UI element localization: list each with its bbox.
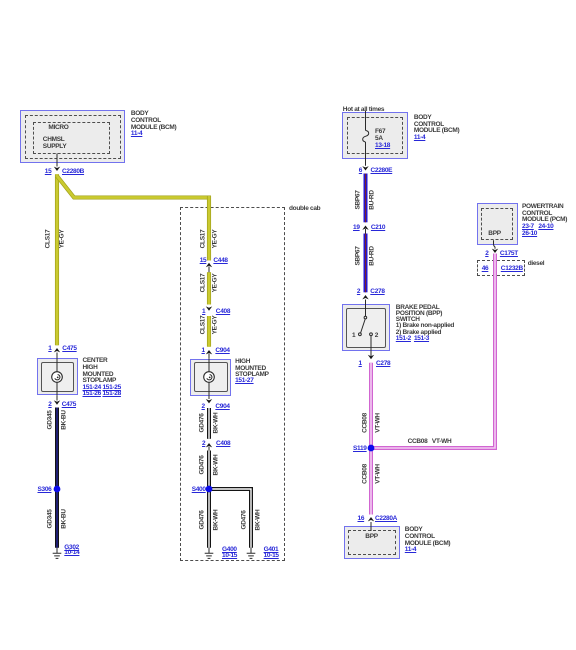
connector arrow C2280A [368,517,374,521]
wire label YE-GY mid seg3 [212,315,219,334]
fuse F67 element [363,130,369,142]
pin 6 C2280E [359,168,362,175]
wire stem C210 [365,229,367,234]
fuse box F67 (BCM, hot at all times) [342,112,408,159]
wire hot feed into fuse [365,111,367,131]
wire CLS17 YE-GY vertical middle seg3 [207,316,211,347]
ground G400 [205,548,214,559]
wire GD476 BK-WH seg1 [207,408,211,439]
wire C904 pin2 stem [208,396,210,399]
ground G302 [53,548,62,559]
connector arrow C278 pin1 [368,355,374,359]
wire label CCB08 lower [361,464,368,484]
PCM name label [522,204,567,238]
ground label G400 [222,547,237,559]
wire CLS17 YE-GY vertical middle seg1 [207,196,211,261]
wire CCB08 VT-WH switch to S119 [369,363,373,446]
wire label CCB08 upper [361,413,368,433]
connector arrow C210 [362,226,368,230]
wire BCM box to C2280B [56,154,58,167]
pin 19 C210 [353,225,360,232]
pin 46 C1232B [482,266,489,273]
PCM module box [477,203,518,244]
wire stem C448 [208,266,210,272]
lamp2 internal wire [208,359,210,396]
pin 15 C2280B [45,169,52,176]
connector arrow C475 pin1 [54,348,60,352]
wire GD476 BK-WH branch to ground G401 [209,489,251,548]
Hot at all times label [343,107,384,114]
wire C475 pin1 stem [56,353,58,359]
wire CCB08 VT-WH S119 to C2280A [369,451,373,515]
wire label GD345 upper [47,410,54,429]
wire label VT-WH lower [375,464,382,483]
wire label BK-BU lower [60,509,67,528]
wire label SBP67 seg1 [355,190,362,209]
wire stem C408 pin2 [208,447,210,451]
wire label GD476 leg1 [199,510,206,529]
switch contact 2 [370,333,373,336]
switch contact 2 label [375,333,378,340]
connector arrow C2280B [54,167,60,171]
CENTER HIGH MOUNTED STOPLAMP label [83,358,121,398]
wire CLS17 YE-GY branch diagonal + horizontal [57,176,211,198]
BCM name label bottom [405,527,451,554]
pin 2 C278 [357,289,360,296]
BPP switch box [342,304,391,351]
HIGH MOUNTED STOPLAMP label [235,359,269,384]
wire PCM to C175T [494,240,496,249]
BPP label inside PCM [488,231,500,238]
pin 1 C278 [359,361,362,368]
lamp1 internal wire [56,358,58,395]
connector arrow C475 pin2 [54,400,60,404]
switch contact2 to pin1 [370,336,372,357]
wire label CCB08 VT-WH horizontal [408,439,452,446]
connector arrow C175T [492,249,498,253]
wire label CLS17 mid seg1 [199,229,206,248]
ground label G302 [64,545,79,556]
wire label BK-WH leg2 [254,509,261,530]
double cab enclosure (dashed) [180,207,285,561]
wire label BU-RD seg2 [368,246,375,265]
pin 1 C904 [202,348,205,355]
switch pivot [364,316,367,319]
wire label SBP67 seg2 [355,246,362,265]
pin 1 C408 [202,309,205,316]
BCM module box bottom (BPP input) [344,526,400,559]
lamp1 bulb symbol [52,372,63,383]
diesel dashed box (C1232B) [477,260,525,276]
connector arrow C904 pin1 [206,350,212,354]
BCM module box top-left (MICRO CHMSL SUPPLY) [20,110,125,163]
BCM name label right of fuse box [414,115,460,142]
wire label YE-GY mid seg2 [212,274,219,293]
wire label BK-WH mid seg1 [212,413,219,434]
pin 2 C408 [202,441,205,448]
ground label G401 [264,547,279,559]
BPP switch name label [396,305,454,343]
wire label GD345 lower [47,509,54,528]
double cab label [289,206,320,213]
wire label CLS17 mid seg3 [199,315,206,334]
wire label BK-WH leg1 [212,509,219,530]
splice label S306 [38,487,52,494]
splice S119 [368,445,375,452]
switch contact 1 label [352,333,355,340]
wire GD476 BK-WH seg2 to ground G400 [207,451,211,548]
connector arrow C2280E [362,166,368,170]
switch lever [360,319,366,336]
pin 15 C448 [200,258,207,265]
lamp2 bulb symbol [204,372,215,383]
wire label GD476 mid seg1 [199,414,206,433]
wire CLS17 YE-GY vertical left [55,174,59,345]
wire label YE-GY left [59,230,66,249]
wire label GD476 leg2 [241,510,248,529]
connector arrow C278 pin2 [362,295,368,299]
pin 2 C175T [485,251,488,258]
wire label BU-RD seg1 [368,190,375,209]
pin 2 C475 [48,402,51,409]
wire BPP switch pin2 stem [365,300,367,317]
fuse F67 value label [375,128,390,150]
high mounted stoplamp box [190,359,230,396]
wire GD345 BK-BU left [55,408,59,548]
splice S400 [206,486,213,493]
wire C904 pin1 stem [208,354,210,359]
wire CLS17 YE-GY vertical middle seg2 [207,272,211,304]
connector arrow C448 [206,263,212,267]
splice label S400 [192,487,206,494]
wire label VT-WH upper [375,413,382,432]
pin 1 C475 [48,346,51,353]
MICRO label [48,125,68,132]
CHMSL SUPPLY label [43,137,67,150]
BPP label inside bottom BCM [365,534,377,541]
wire SBP67 BU-RD seg1 [364,174,368,223]
wire CCB08 VT-WH branch S119 to PCM [371,254,495,449]
splice label S119 [353,446,367,453]
pin 16 C2280A [358,516,365,523]
connector arrow C408 pin1 [206,306,212,310]
BCM name label top-left [131,111,177,138]
wire C2280A stem into BCM [370,522,372,531]
wire label CLS17 mid seg2 [199,274,206,293]
ground G401 [247,548,256,559]
wire label CLS17 left [45,230,52,249]
wire label BK-BU upper [60,410,67,429]
center high mounted stoplamp box [37,358,78,395]
connector arrow C904 pin2 [206,399,212,403]
wire label YE-GY mid seg1 [212,229,219,248]
switch contact 1 [359,333,362,336]
wire C475 pin2 stem [56,395,58,400]
wire SBP67 BU-RD seg2 [364,234,368,293]
connector arrow C408 pin2 [206,443,212,447]
splice S306 [54,486,61,493]
wire label BK-WH mid seg2 [212,454,219,475]
wire fuse to C2280E [365,142,367,166]
diesel label [528,261,545,268]
pin 2 C904 [202,404,205,411]
wire label GD476 mid seg2 [199,455,206,474]
